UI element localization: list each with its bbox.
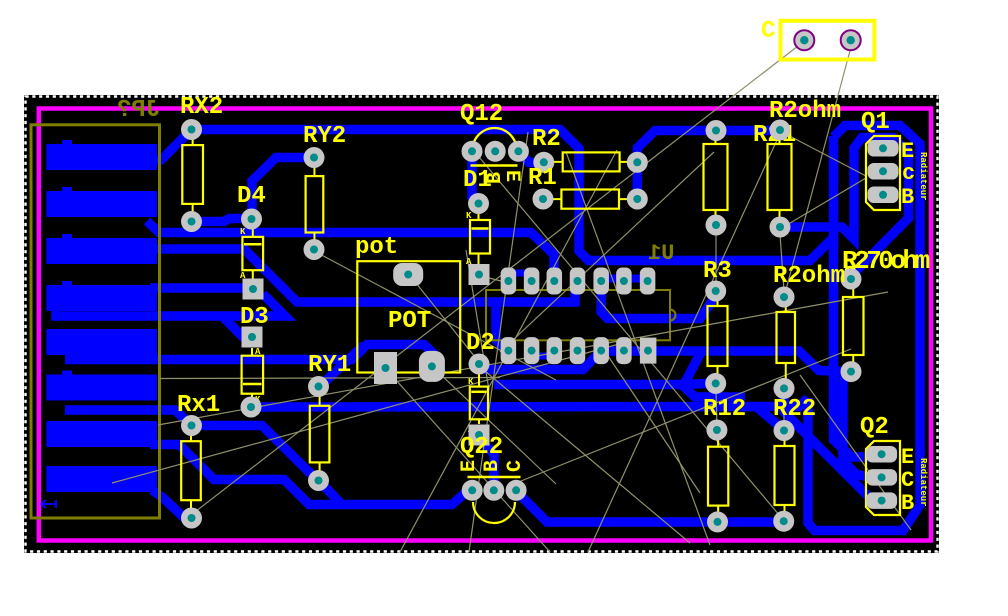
svg-text:R1: R1 <box>528 165 557 192</box>
pad U1 pin9 top <box>616 268 632 295</box>
pad D3 anode <box>241 397 262 418</box>
pad Q2 C <box>866 469 897 486</box>
diode D1 body <box>470 220 490 254</box>
wire U1 pin14 to pin13 <box>508 270 533 277</box>
wire R270.bottom to Q2.C <box>843 373 870 478</box>
pad Q1 B <box>868 187 899 204</box>
resistor R12 body <box>708 447 728 506</box>
wire bus branch to right return <box>756 398 808 407</box>
svg-text:R2: R2 <box>532 126 561 153</box>
resistor R1 body <box>561 190 619 209</box>
pad R21.2 <box>770 217 791 238</box>
svg-text:E: E <box>901 445 914 470</box>
pad R2ohm2.1 <box>774 287 795 308</box>
svg-text:RX2: RX2 <box>180 94 223 121</box>
wire branch to U1 bottom pin1 <box>496 302 505 350</box>
svg-text:D4: D4 <box>237 183 266 210</box>
transistor Q22 outline <box>468 476 521 479</box>
board background <box>24 95 939 553</box>
pad RY2.2 <box>304 239 325 260</box>
wire JP row to U1 pin3 <box>147 221 554 278</box>
pad U1 pin1 bottom <box>501 337 517 364</box>
pad U1 pin5 bottom <box>593 337 609 364</box>
pad D4 anode square <box>243 279 264 300</box>
ratsnest R270 to bottom-right corner <box>800 375 911 530</box>
ratsnest C.1 to Rx1.bottom <box>191 46 798 515</box>
connector JP1 pad 4 <box>46 285 157 311</box>
pad U1 pin2 bottom <box>524 337 540 364</box>
pad D4 cathode <box>241 209 262 230</box>
ratsnest R21.top to Q1.c <box>782 132 866 176</box>
pad R1.1 <box>533 189 554 210</box>
wire left serpentine to Q2.E <box>834 136 871 457</box>
resistor R2 body <box>563 152 620 171</box>
pad D1 cathode <box>468 193 489 214</box>
pad R-a.1 <box>706 120 727 141</box>
pad U1 pin4 bottom <box>570 337 586 364</box>
resistor R22 body <box>775 446 795 505</box>
wire JP row to POT pin3 <box>65 345 433 365</box>
svg-text:K: K <box>240 227 246 237</box>
pad Rx1.1 <box>181 415 202 436</box>
wire U1 bottom pin2 to pin3 <box>532 353 555 360</box>
resistor R21 body <box>768 144 792 210</box>
svg-text:R2ohm: R2ohm <box>769 98 841 125</box>
connector JP1 pin1 marker <box>41 500 56 508</box>
wire Q12 pin3 to R2.left <box>518 152 543 163</box>
ratsnest horizontal mid-left <box>160 378 500 379</box>
svg-text:Rx1: Rx1 <box>177 392 220 419</box>
magenta board outline <box>39 109 931 541</box>
svg-text:B: B <box>901 185 914 210</box>
ratsnest POT.pin2 to Q22 <box>438 372 556 484</box>
pad R270ohm.2 <box>841 361 862 382</box>
ratsnest shallow long upper <box>158 292 888 425</box>
resistor RY2 body <box>306 176 324 232</box>
wire Q22 pin3 to R12 R22 bottoms <box>516 491 784 522</box>
wire JP pad7 to bottom bus to Q22 pin1 <box>150 445 466 505</box>
potentiometer POT outline <box>357 261 460 372</box>
wire Rx1.top to RY1.bottom <box>192 426 319 481</box>
svg-text:R22: R22 <box>773 396 816 423</box>
svg-text:K: K <box>468 377 474 387</box>
svg-text:U1: U1 <box>648 241 674 266</box>
svg-text:E: E <box>458 460 481 472</box>
connector JP1 outline <box>31 125 160 518</box>
pad Q2 E <box>866 446 897 463</box>
ratsnest R21 to bottom-center <box>588 140 777 552</box>
ratsnest R-a.bottom to R3.top <box>715 232 717 286</box>
svg-text:pot: pot <box>355 234 398 261</box>
pad U1 pin11 top <box>570 268 586 295</box>
pad U1 pin6 bottom <box>616 337 632 364</box>
svg-text:K: K <box>466 211 472 221</box>
svg-text:R270ohm: R270ohm <box>842 246 930 276</box>
ratsnest RY2.bottom to U1 <box>314 251 556 380</box>
wire JP row to U1 pin4 <box>150 249 575 302</box>
svg-text:Q22: Q22 <box>460 434 503 461</box>
board edge dashed border <box>26 97 938 552</box>
diode D4 body <box>242 237 263 270</box>
svg-text:C: C <box>504 460 527 472</box>
svg-text:c: c <box>902 161 915 186</box>
ratsnest Q12 area to Q22.pin1 <box>469 132 528 552</box>
wire RY1.top to POT pin3 <box>319 345 365 388</box>
svg-text:Q12: Q12 <box>460 101 503 128</box>
pad U1 pin3 bottom <box>547 337 563 364</box>
wire RX2.top to bus right to node <box>192 130 834 261</box>
pad D3 cathode square <box>242 327 263 348</box>
pad Q22 B <box>483 480 504 501</box>
resistor R270ohm body <box>843 297 864 355</box>
wire R2ohm2.bottom to Q2.B <box>784 389 877 501</box>
svg-text:POT: POT <box>388 308 431 335</box>
resistor RY1 body <box>310 406 330 463</box>
ratsnest R3.bottom to R12.top <box>715 390 718 424</box>
wire D2 square to Q22 pin2 <box>480 440 494 484</box>
svg-text:RY2: RY2 <box>303 123 346 150</box>
svg-text:Radiateur: Radiateur <box>918 458 928 507</box>
pad Q22 E <box>462 480 483 501</box>
ratsnest C.2 to R2ohm2.top <box>784 47 851 297</box>
pad C.1 <box>794 30 814 50</box>
pad R2.1 <box>533 152 554 173</box>
pad U1 pin10 top <box>593 268 609 295</box>
pad R-a.2 <box>706 215 727 236</box>
svg-text:Q1: Q1 <box>861 109 890 136</box>
wire JP row to D4 square pad <box>150 283 243 293</box>
wire bus2 jog <box>681 384 745 397</box>
pad D2 cathode <box>469 354 490 375</box>
pad RY2.1 <box>304 147 325 168</box>
ratsnest D1 square to U1 pin14 <box>489 278 505 282</box>
pad R2.2 <box>627 152 648 173</box>
svg-text:R2ohm: R2ohm <box>773 263 845 290</box>
pad U1 pin8 top <box>640 268 656 295</box>
svg-text:R12: R12 <box>703 396 746 423</box>
pad R3.2 <box>705 373 726 394</box>
svg-text:E: E <box>500 170 523 182</box>
svg-text:B: B <box>901 491 914 516</box>
svg-text:C: C <box>761 18 775 45</box>
pad R3.1 <box>705 281 726 302</box>
pad U1 pin13 top <box>524 268 540 295</box>
svg-text:JP?: JP? <box>117 97 160 124</box>
ratsnest R2 to bottom-left <box>400 150 617 552</box>
pad R1.2 <box>627 189 648 210</box>
wire RY2.top to D4 top <box>252 158 315 219</box>
wire U1 pin5 to R3.top <box>601 283 716 319</box>
pad U1 pin7 square <box>640 338 657 364</box>
wire mid bus2 to R3.bottom <box>494 384 714 385</box>
pad R22.1 <box>774 420 795 441</box>
wire D2.top to mid bus to R270.bottom <box>479 351 847 372</box>
svg-text:A: A <box>255 347 261 357</box>
pad Q1 C <box>868 163 899 180</box>
ratsnest D2 to bottom-right <box>479 366 690 543</box>
ratsnest Rtop to U1 pad <box>500 152 714 352</box>
IC U1 notch <box>670 310 676 321</box>
pad Q2 B <box>866 492 897 509</box>
resistor R2ohm2 body <box>777 312 796 363</box>
wire D3.bottom long bus to R22.top <box>251 407 785 431</box>
pad R270ohm.1 <box>841 269 862 290</box>
pad R2ohm2.2 <box>774 378 795 399</box>
pad U1 pin12 top <box>547 268 563 295</box>
ratsnest R2.right down <box>566 152 710 545</box>
IC U1 outline <box>486 290 670 340</box>
svg-text:D3: D3 <box>240 304 269 331</box>
wire R1.right R2.right to R-top bus <box>637 131 780 200</box>
pad Q12 E <box>462 141 483 162</box>
wire JP pad8 to Rx1.bottom <box>152 490 192 519</box>
capacitor C outline <box>781 21 875 60</box>
resistor R3 body <box>708 306 728 366</box>
pad RX2.1 <box>181 119 202 140</box>
ratsnest POT to Q22.pin2 <box>387 370 550 552</box>
transistor Q1 outline <box>866 136 900 210</box>
svg-text:Radiateur: Radiateur <box>918 152 928 201</box>
pad R21.1 <box>770 120 791 141</box>
connector JP1 pad 1 <box>46 144 157 170</box>
connector JP1 pad 3 <box>46 238 157 264</box>
svg-text:RY1: RY1 <box>308 352 351 379</box>
ratsnest center vertical <box>466 250 489 390</box>
resistor R-a body <box>704 144 728 210</box>
ratsnest shallow long lower <box>112 341 630 483</box>
pad U1 pin14 top <box>501 268 517 295</box>
svg-text:R3: R3 <box>703 258 732 285</box>
pad Q12 B <box>485 141 506 162</box>
wire R21.bottom to top loop to R270.top <box>780 138 909 277</box>
pad Rx1.2 <box>181 508 202 529</box>
resistor RX2 body <box>182 145 203 204</box>
pad D2 anode square <box>469 425 490 446</box>
pad Q12 C <box>508 141 529 162</box>
transistor Q12 outline <box>473 128 517 150</box>
pad R12.1 <box>706 420 727 441</box>
ratsnest R21.bottom to Q1.c <box>780 178 866 229</box>
connector JP1 pad 5 <box>46 329 157 355</box>
pad D1 anode square <box>469 264 490 285</box>
wire branch to D3 square pad <box>222 316 250 337</box>
wire RY1.bottom to bottom bus <box>319 481 343 505</box>
diode D2 body <box>470 387 488 420</box>
pad RY1.2 <box>308 470 329 491</box>
svg-text:B: B <box>481 460 504 472</box>
transistor Q2 outline <box>866 441 900 515</box>
pad RY1.1 <box>308 376 329 397</box>
pad RX2.2 <box>181 211 202 232</box>
pad R22.2 <box>773 511 794 532</box>
wire RX2.top to JP1 pad1 <box>150 130 192 161</box>
ratsnest POT.pin1 to D2 <box>412 278 479 362</box>
wire JP row to Rx1.top <box>65 410 192 426</box>
connector JP1 pad 8 <box>46 466 157 492</box>
wire JP row to D4 anode square <box>56 294 285 316</box>
ratsnest R2ohm2.bottom to R22.top <box>783 395 785 424</box>
pad POT.3 <box>419 351 445 382</box>
ratsnest Q12.pin1 to R12 area <box>474 151 790 528</box>
connector JP1 pad 2 <box>46 191 157 217</box>
ratsnest Q22 to R270 area <box>516 349 851 483</box>
wire right return via bottom to top serpentine <box>808 126 920 531</box>
wire RX2.bottom to D4 anode <box>192 219 252 222</box>
pad R12.2 <box>707 511 728 532</box>
wire U1 top pins 5-6-7 <box>601 275 645 283</box>
ratsnest R21.bottom to R2ohm2.top <box>780 234 784 291</box>
pad POT.2 square <box>374 352 397 384</box>
pad Q22 C <box>506 480 527 501</box>
svg-text:C: C <box>901 468 914 493</box>
diode D3 body <box>242 356 264 394</box>
svg-text:Q2: Q2 <box>860 414 889 441</box>
wire bus2 branch up <box>684 352 701 385</box>
wire Q12 pin1 to D1.top <box>472 155 479 204</box>
svg-text:D2: D2 <box>466 330 495 357</box>
pad Q1 E <box>868 140 899 157</box>
pad POT.1 <box>393 263 423 286</box>
pad C.2 <box>841 30 861 50</box>
ratsnest mid steep <box>596 338 700 493</box>
connector JP1 pad 6 <box>46 375 157 401</box>
connector JP1 pad 7 <box>46 421 157 447</box>
resistor Rx1 body <box>181 441 201 500</box>
